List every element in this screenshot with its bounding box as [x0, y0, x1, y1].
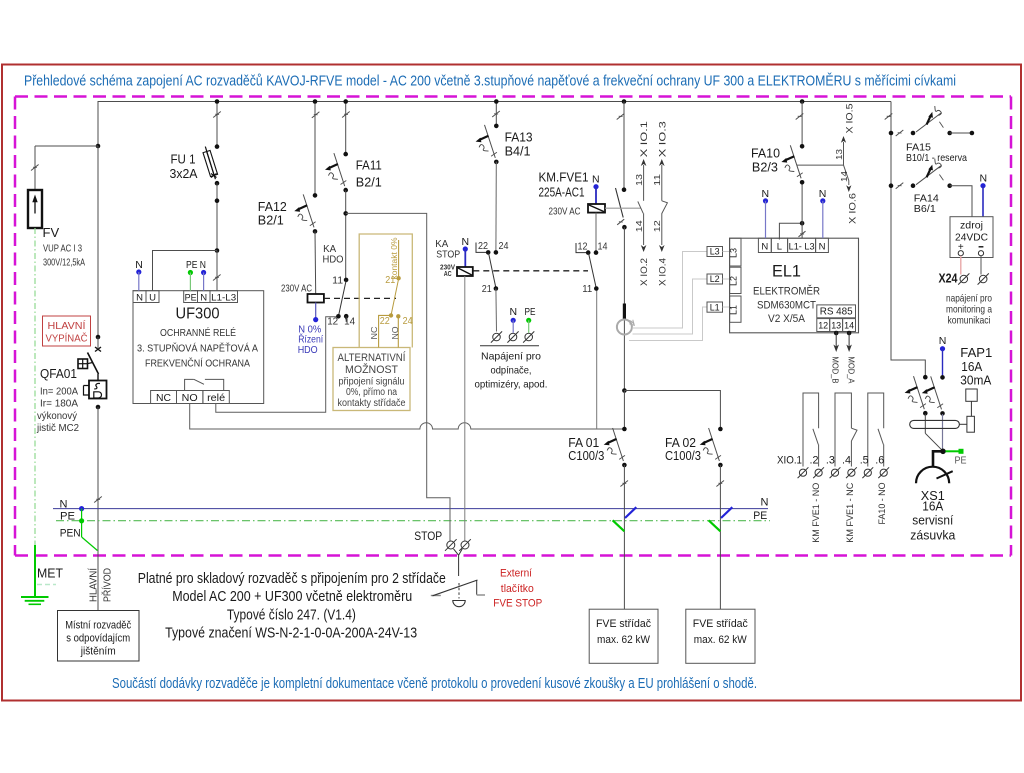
- svg-text:X IO.1: X IO.1: [639, 121, 650, 157]
- fuse disconnector FU1: [170, 99, 221, 250]
- svg-text:jištěním: jištěním: [80, 646, 116, 658]
- svg-text:FA10 - NO: FA10 - NO: [877, 483, 887, 525]
- svg-text:N: N: [136, 292, 143, 303]
- svg-text:zdroj: zdroj: [960, 220, 983, 232]
- circuit breaker FA12: [258, 99, 320, 234]
- CT terminal labels L3 L2 L1: [707, 247, 730, 313]
- protective relay UF300: [133, 259, 264, 404]
- svg-text:21: 21: [482, 284, 492, 295]
- svg-text:21: 21: [385, 275, 395, 286]
- svg-text:12: 12: [652, 220, 662, 232]
- svg-text:16A: 16A: [922, 500, 944, 514]
- auxiliary contact to terminals X IO.1 / X IO.2: [634, 121, 650, 286]
- svg-text:L1: L1: [710, 302, 720, 312]
- svg-text:PE: PE: [955, 455, 967, 467]
- svg-text:B10/1 - reserva: B10/1 - reserva: [906, 152, 967, 164]
- RS485 signal arrows MOD_B MOD_A: [831, 331, 857, 384]
- N tap inverter 1: [625, 507, 636, 518]
- svg-text:B2/1: B2/1: [258, 214, 284, 228]
- svg-text:STOP: STOP: [436, 248, 460, 260]
- earth electrode MET: [21, 566, 63, 605]
- PE tap inverter 2: [709, 520, 721, 531]
- svg-text:230V AC: 230V AC: [549, 207, 581, 218]
- svg-text:FV: FV: [43, 225, 60, 240]
- svg-text:14: 14: [634, 220, 644, 232]
- svg-text:N: N: [819, 242, 826, 253]
- svg-text:FA 01: FA 01: [568, 436, 599, 450]
- wire to socket supply terminals: [495, 289, 498, 332]
- svg-text:Součástí dodávky rozvaděče je: Součástí dodávky rozvaděče je kompletní …: [112, 676, 757, 692]
- terminal block XIO.3-XIO.4 KM FVE1 NC contact: [830, 393, 857, 543]
- svg-text:0%, přímo na: 0%, přímo na: [346, 387, 397, 398]
- svg-text:FA12: FA12: [258, 200, 287, 214]
- svg-text:V2 X/5A: V2 X/5A: [768, 313, 806, 325]
- wire KM.FVE1 to meter CT: [623, 227, 625, 390]
- svg-text:.4: .4: [842, 455, 851, 467]
- svg-text:16A: 16A: [961, 360, 983, 374]
- wire FA10 to EL1 L1-L3: [801, 182, 803, 238]
- N tap inverter 2: [721, 507, 732, 518]
- svg-text:12: 12: [327, 317, 338, 328]
- svg-text:SDM630MCT: SDM630MCT: [757, 300, 816, 312]
- svg-text:QFA01: QFA01: [40, 366, 77, 381]
- svg-text:FA11: FA11: [356, 159, 382, 173]
- svg-text:PE: PE: [185, 292, 197, 303]
- svg-text:N: N: [592, 174, 600, 186]
- wire to UF300 L1-L3 input: [216, 251, 218, 292]
- svg-text:KM FVE1 - NO: KM FVE1 - NO: [811, 483, 821, 543]
- wire EL1 L terminal to FA10: [779, 223, 802, 239]
- svg-text:MOŽNOST: MOŽNOST: [345, 363, 398, 376]
- wire to UF300 U input: [153, 251, 218, 292]
- svg-text:14: 14: [344, 317, 355, 328]
- svg-text:12: 12: [578, 242, 588, 253]
- svg-text:N: N: [819, 188, 827, 200]
- auxiliary contact to terminals X IO.3 / X IO.4: [652, 121, 668, 286]
- svg-text:kontakty střídače: kontakty střídače: [338, 398, 406, 409]
- wire FA14 to 24VDC supply: [950, 186, 972, 217]
- svg-text:C100/3: C100/3: [568, 449, 604, 463]
- svg-text:NO: NO: [390, 326, 400, 339]
- svg-text:N: N: [761, 242, 768, 253]
- svg-text:zásuvka: zásuvka: [910, 529, 955, 543]
- svg-text:.6: .6: [875, 455, 884, 467]
- svg-text:VUP AC I 3: VUP AC I 3: [43, 243, 82, 255]
- alternative option box (tan): [333, 234, 412, 411]
- svg-text:RS 485: RS 485: [820, 306, 853, 318]
- svg-text:Místní rozvaděč: Místní rozvaděč: [65, 620, 131, 632]
- svg-text:komunikaci: komunikaci: [948, 315, 991, 327]
- svg-text:Napájení pro: Napájení pro: [481, 351, 541, 363]
- svg-text:X IO.6: X IO.6: [848, 193, 859, 224]
- svg-text:s odpovídajícm: s odpovídajícm: [66, 633, 130, 645]
- wire UF300 NO output control line: [190, 404, 625, 430]
- svg-text:optimizéry, apod.: optimizéry, apod.: [475, 379, 548, 391]
- svg-text:11: 11: [582, 284, 592, 295]
- coil KM.FVE1: [549, 174, 642, 253]
- svg-text:L1- L3: L1- L3: [789, 242, 815, 253]
- inverter box FVE 2: [686, 609, 755, 663]
- svg-text:X IO.4: X IO.4: [657, 258, 668, 286]
- wire FA02 to inverter 2: [719, 465, 721, 609]
- svg-text:225A-AC1: 225A-AC1: [539, 186, 585, 200]
- svg-text:22: 22: [478, 241, 488, 252]
- protective earth bus PE: [56, 510, 770, 539]
- svg-text:3x2A: 3x2A: [170, 167, 199, 181]
- svg-text:relé: relé: [207, 393, 225, 404]
- svg-text:L2: L2: [710, 274, 720, 284]
- svg-text:kontakt 0%: kontakt 0%: [389, 237, 399, 279]
- surge arrester FV: [28, 146, 98, 269]
- svg-text:Externí: Externí: [500, 568, 532, 580]
- svg-text:300V/12,5kA: 300V/12,5kA: [43, 257, 85, 269]
- EL1 neutral stubs: [762, 188, 827, 238]
- svg-text:13: 13: [831, 321, 841, 332]
- svg-text:EL1: EL1: [772, 263, 801, 281]
- svg-text:X24: X24: [939, 272, 958, 286]
- svg-text:výkonový: výkonový: [37, 410, 78, 422]
- svg-text:11: 11: [332, 276, 343, 287]
- wire main distribution bus: [98, 102, 891, 147]
- wire right feeder column: [891, 102, 925, 378]
- svg-text:In= 200A: In= 200A: [40, 386, 78, 398]
- wire FA10 aux branch: [797, 164, 844, 166]
- terminal block socket supply: [475, 306, 548, 391]
- svg-text:FU 1: FU 1: [171, 153, 196, 167]
- svg-text:HLAVNÍ: HLAVNÍ: [48, 319, 86, 332]
- svg-text:Typové číslo 247. (V1.4): Typové číslo 247. (V1.4): [227, 607, 356, 624]
- terminals X24: [939, 272, 993, 327]
- svg-text:NC: NC: [369, 327, 379, 340]
- svg-text:PE: PE: [525, 306, 536, 318]
- svg-text:FA 02: FA 02: [665, 436, 696, 450]
- svg-text:C100/3: C100/3: [665, 449, 701, 463]
- wire to FA02: [624, 391, 720, 430]
- svg-text:N: N: [60, 499, 68, 511]
- svg-text:.2: .2: [810, 455, 819, 467]
- circuit breaker FA11: [325, 99, 382, 192]
- svg-text:PŘÍVOD: PŘÍVOD: [101, 568, 114, 602]
- cabinet boundary dashed: [15, 95, 1011, 98]
- node UF300 tap: [215, 248, 220, 253]
- power supply 24VDC: [950, 173, 993, 275]
- svg-text:max. 62 kW: max. 62 kW: [597, 634, 651, 646]
- svg-text:Platné pro skladový rozvaděč s: Platné pro skladový rozvaděč s připojení…: [138, 570, 446, 587]
- pushbutton terminals STOP: [414, 529, 471, 551]
- svg-text:jistič MC2: jistič MC2: [36, 422, 79, 434]
- svg-text:FREKVENČNÍ OCHRANA: FREKVENČNÍ OCHRANA: [145, 357, 250, 370]
- svg-text:N: N: [761, 497, 769, 509]
- svg-text:Typové značení WS-N-2-1-0-0A-2: Typové značení WS-N-2-1-0-0A-200A-24V-13: [165, 625, 417, 642]
- svg-text:VYPÍNAČ: VYPÍNAČ: [46, 332, 88, 345]
- svg-text:11: 11: [652, 174, 662, 186]
- changeover contact KA HDO 11/12/14: [327, 276, 355, 328]
- svg-text:N: N: [762, 188, 770, 200]
- svg-text:230V AC: 230V AC: [281, 284, 312, 295]
- svg-text:B4/1: B4/1: [505, 145, 531, 159]
- svg-text:14: 14: [839, 171, 849, 182]
- svg-text:24: 24: [499, 241, 509, 252]
- svg-text:B2/1: B2/1: [356, 176, 382, 190]
- svg-text:L3: L3: [729, 248, 739, 258]
- svg-text:PE N: PE N: [186, 259, 206, 271]
- svg-text:NO: NO: [182, 393, 198, 404]
- label external stop (red): [493, 568, 542, 610]
- svg-text:N: N: [462, 236, 470, 248]
- svg-text:N: N: [510, 306, 518, 318]
- wire FA11 output: [345, 190, 347, 280]
- svg-text:L: L: [777, 242, 782, 253]
- PE conductor from FV to earth: [34, 228, 36, 545]
- svg-text:KM.FVE1: KM.FVE1: [539, 171, 589, 185]
- svg-text:X IO.5: X IO.5: [844, 104, 855, 134]
- terminal block XIO.1-XIO.2 KM FVE1 NO contact: [798, 393, 824, 543]
- CT sensing wires to meter: [629, 252, 707, 341]
- svg-text:max. 62 kW: max. 62 kW: [694, 634, 748, 646]
- circuit breaker FA13: [476, 99, 533, 164]
- PE tap inverter 1: [613, 520, 625, 531]
- svg-text:N: N: [939, 335, 947, 347]
- svg-text:12: 12: [818, 321, 828, 332]
- svg-text:B6/1: B6/1: [914, 203, 936, 215]
- svg-text:3. STUPŇOVÁ NAPĚŤOVÁ A: 3. STUPŇOVÁ NAPĚŤOVÁ A: [137, 342, 258, 355]
- current transformer on feeder: [617, 304, 634, 335]
- svg-text:servisní: servisní: [912, 514, 953, 528]
- svg-text:HLAVNÍ: HLAVNÍ: [87, 568, 100, 602]
- svg-text:tlačítko: tlačítko: [501, 583, 534, 595]
- mechanical link KA STOP dashed: [473, 270, 588, 272]
- svg-text:UF300: UF300: [176, 306, 220, 323]
- svg-text:13: 13: [634, 174, 644, 186]
- svg-text:N: N: [980, 173, 988, 185]
- svg-text:Model AC 200 + UF300 včetně e: Model AC 200 + UF300 včetně elektroměru: [172, 588, 412, 605]
- node stop-circuit tap: [343, 211, 348, 216]
- wire control line riser to KA STOP contact 11: [596, 289, 598, 430]
- label box HLAVNÍ VYPÍNAČ: [43, 316, 91, 346]
- svg-text:14: 14: [598, 242, 608, 253]
- neutral bus N: [53, 497, 769, 511]
- svg-text:L2: L2: [729, 276, 739, 286]
- svg-text:MET: MET: [37, 566, 63, 581]
- svg-text:odpínače,: odpínače,: [491, 365, 532, 377]
- energy meter EL1: [729, 238, 859, 333]
- svg-text:ELEKTROMĚR: ELEKTROMĚR: [753, 285, 820, 298]
- auxiliary contact KA STOP 12/14/11: [576, 242, 608, 296]
- svg-text:N: N: [135, 259, 143, 271]
- distribution box Místní rozvaděč: [58, 611, 140, 662]
- svg-text:připojení signálu: připojení signálu: [339, 377, 405, 388]
- type description text: [138, 570, 446, 642]
- external stop button: [431, 549, 485, 607]
- auxiliary contact KA STOP 22/24/21: [476, 241, 509, 295]
- svg-text:FA13: FA13: [505, 131, 533, 145]
- terminal block XIO.5-XIO.6 FA10 NO contact: [862, 393, 889, 525]
- svg-text:FA10: FA10: [751, 147, 780, 161]
- circuit breaker FA 02: [665, 427, 723, 468]
- mechanical link KA HDO dashed: [324, 297, 396, 299]
- wire FV junction to QFA01: [97, 146, 99, 337]
- svg-text:ALTERNATIVNÍ: ALTERNATIVNÍ: [338, 351, 407, 364]
- wire incoming supply PEN: [97, 407, 99, 611]
- svg-text:22: 22: [380, 316, 390, 327]
- svg-text:L1: L1: [729, 305, 739, 315]
- svg-text:U: U: [149, 292, 156, 303]
- circuit breaker FA14: [889, 159, 952, 215]
- circuit breaker QFA01: [36, 335, 106, 434]
- PEN split node: [79, 506, 97, 551]
- svg-text:PEN: PEN: [60, 528, 81, 540]
- svg-text:HDO: HDO: [298, 344, 318, 356]
- svg-text:L1-L3: L1-L3: [211, 292, 236, 303]
- svg-text:OCHRANNÉ RELÉ: OCHRANNÉ RELÉ: [160, 326, 236, 339]
- svg-text:FVE střídač: FVE střídač: [693, 618, 748, 630]
- circuit breaker FA 01: [568, 427, 626, 468]
- svg-text:FVE STOP: FVE STOP: [493, 598, 542, 610]
- svg-text:.3: .3: [826, 455, 835, 467]
- contactor KM.FVE1 main contact: [539, 99, 627, 229]
- wire UF300 relé output to KA HDO contact 12: [216, 317, 339, 412]
- svg-text:XIO.1: XIO.1: [777, 455, 802, 467]
- svg-text:L3: L3: [710, 247, 720, 257]
- labels XIO terminals: [777, 455, 884, 467]
- svg-text:MOD_B: MOD_B: [831, 357, 841, 384]
- svg-text:PE: PE: [60, 511, 75, 523]
- svg-text:13: 13: [834, 149, 844, 160]
- svg-text:STOP: STOP: [414, 529, 442, 543]
- svg-text:PE: PE: [753, 510, 767, 522]
- svg-text:HDO: HDO: [323, 254, 344, 266]
- wire to FA01: [623, 391, 625, 430]
- svg-text:.5: .5: [860, 455, 869, 467]
- node FV tap junction: [96, 144, 101, 149]
- svg-text:14: 14: [844, 321, 854, 332]
- svg-text:MOD_A: MOD_A: [847, 357, 857, 384]
- relay coil KA HDO: [281, 231, 324, 356]
- node feeder split after meter: [622, 388, 627, 393]
- svg-text:X IO.2: X IO.2: [639, 258, 650, 286]
- svg-text:Ir= 180A: Ir= 180A: [40, 398, 78, 410]
- wire FA01 to inverter 1: [623, 465, 625, 609]
- svg-text:B2/3: B2/3: [752, 161, 778, 175]
- relay coil KA STOP: [435, 236, 473, 541]
- svg-text:Přehledové schéma zapojení AC: Přehledové schéma zapojení AC rozvaděčů …: [24, 73, 956, 90]
- svg-text:FAP1: FAP1: [960, 346, 992, 360]
- svg-text:FVE střídač: FVE střídač: [596, 618, 651, 630]
- svg-text:N: N: [200, 292, 207, 303]
- RCBO FAP1: [905, 335, 993, 451]
- inverter box FVE 1: [589, 609, 658, 663]
- svg-text:AC: AC: [444, 271, 452, 278]
- wire FA11 to external stop button: [346, 213, 450, 541]
- svg-text:KM FVE1 - NC: KM FVE1 - NC: [845, 482, 855, 542]
- svg-text:NC: NC: [156, 393, 171, 404]
- auxiliary contact FA10 X IO.5 / X IO.6: [834, 104, 859, 225]
- wire FA13 output: [495, 162, 497, 253]
- circuit breaker FA15 (reserve): [889, 106, 975, 164]
- alternative contact 21/22/24 (tan): [369, 237, 413, 347]
- svg-text:24: 24: [403, 316, 413, 327]
- svg-text:30mA: 30mA: [960, 374, 992, 388]
- service socket XS1: [910, 449, 966, 543]
- svg-text:X IO.3: X IO.3: [657, 121, 668, 157]
- circuit breaker FA10: [751, 99, 804, 184]
